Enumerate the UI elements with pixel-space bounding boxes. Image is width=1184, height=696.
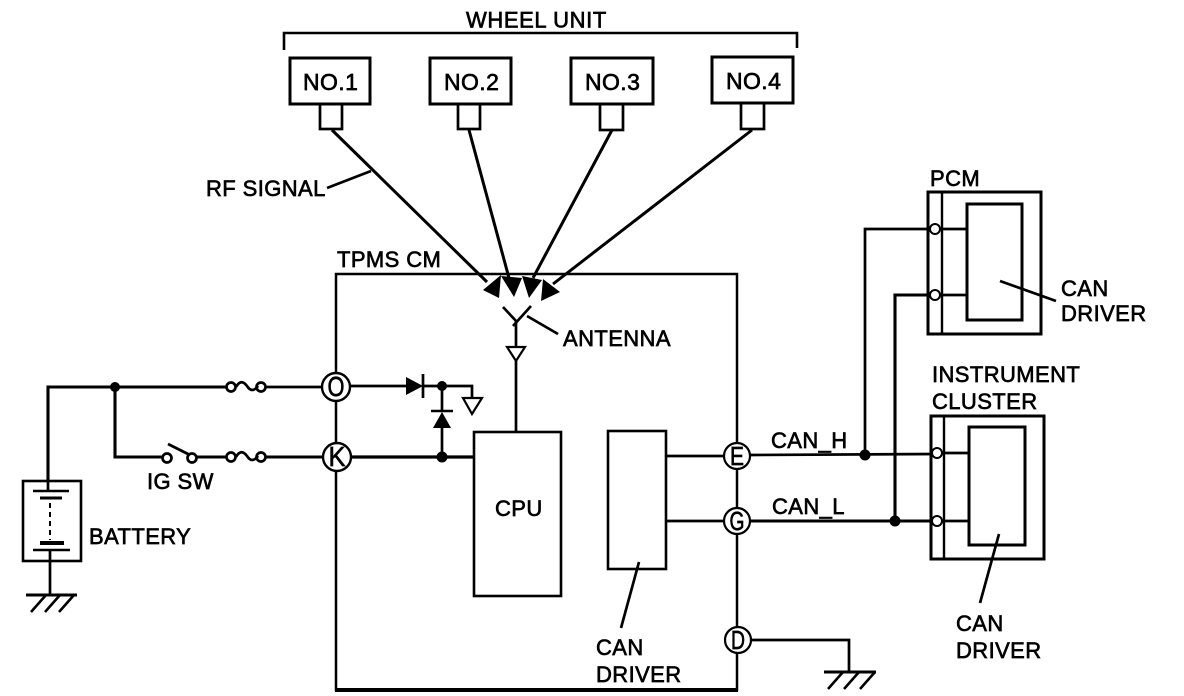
svg-text:NO.1: NO.1 <box>303 69 358 95</box>
TPMS CM bottom edge thick <box>335 688 738 692</box>
CAN driver box (TPMS) <box>608 431 666 569</box>
cluster pin 2 <box>932 516 942 526</box>
svg-text:NO.4: NO.4 <box>726 68 781 94</box>
instrument cluster outer box <box>931 416 1044 559</box>
svg-text:NO.2: NO.2 <box>444 69 499 95</box>
wire CAN_H <box>750 454 937 455</box>
antenna symbol <box>503 306 531 432</box>
svg-text:TPMS CM: TPMS CM <box>337 247 441 272</box>
cluster pin 2 wire <box>942 520 969 523</box>
wire CAN driver to G <box>666 520 725 523</box>
svg-text:ANTENNA: ANTENNA <box>563 326 671 351</box>
battery box <box>23 481 81 561</box>
leader line CAN driver (TPMS) <box>621 562 639 628</box>
battery riser wire <box>48 387 115 481</box>
svg-text:INSTRUMENT: INSTRUMENT <box>932 362 1080 387</box>
leader line CAN driver (PCM) <box>1000 281 1056 301</box>
fuse F1 <box>227 382 266 391</box>
PCM outer box <box>928 192 1041 334</box>
connector pin O <box>322 371 350 402</box>
PCM pin 1 wire <box>940 228 967 231</box>
wire CAN driver to E <box>666 455 725 458</box>
rf wave line from NO.3 <box>533 130 612 278</box>
svg-text:NO.3: NO.3 <box>585 69 640 95</box>
CPU box <box>474 432 561 596</box>
wire fuse2 to K <box>266 455 323 458</box>
junction dot on K line <box>437 452 448 463</box>
wire junction down to zener <box>441 386 444 411</box>
connector pin G <box>724 506 750 536</box>
junction dot CAN_H <box>860 450 871 461</box>
svg-text:CAN_H: CAN_H <box>771 428 848 453</box>
wire CAN_L <box>750 519 937 522</box>
wire switch to fuse 2 <box>197 455 227 458</box>
svg-text:G: G <box>730 506 745 536</box>
rf wave line from NO.2 <box>469 130 509 278</box>
wire D to ground <box>751 640 849 672</box>
PCM connector strip <box>941 192 943 334</box>
svg-text:O: O <box>328 371 345 402</box>
wire zener to K line <box>441 428 444 457</box>
svg-text:CAN: CAN <box>596 635 644 660</box>
connector pin D <box>725 625 751 655</box>
svg-text:CLUSTER: CLUSTER <box>932 389 1038 414</box>
svg-text:BATTERY: BATTERY <box>89 524 191 549</box>
svg-text:WHEEL UNIT: WHEEL UNIT <box>466 8 607 33</box>
svg-text:CAN_L: CAN_L <box>772 494 845 519</box>
diode D1 <box>406 374 423 398</box>
svg-text:K: K <box>329 441 346 472</box>
junction dot after diode <box>437 381 447 391</box>
leader line RF SIGNAL <box>327 171 371 188</box>
wire to fuse 1 <box>115 385 227 388</box>
leader line CAN driver (cluster) <box>980 534 999 603</box>
rf arrowhead 4 <box>541 279 560 301</box>
PCM pin 2 <box>930 290 940 300</box>
connector pin K <box>323 441 351 472</box>
wheel unit NO.1 box <box>290 58 370 129</box>
cluster pin 1 wire <box>942 452 969 455</box>
instrument cluster connector strip <box>943 416 945 559</box>
rf arrowhead 3 <box>522 276 542 298</box>
svg-text:RF SIGNAL: RF SIGNAL <box>206 176 326 201</box>
wire CAN_H up to PCM <box>865 229 929 455</box>
wire battery to ground <box>49 561 52 595</box>
wire junction to open arrow <box>442 386 472 398</box>
instrument cluster CAN driver box <box>969 427 1025 545</box>
svg-text:D: D <box>731 625 745 655</box>
wire K to CPU <box>351 455 474 458</box>
wire CAN_L up to PCM <box>895 295 929 521</box>
svg-text:DRIVER: DRIVER <box>1061 301 1147 326</box>
bracket over wheel units <box>284 33 797 50</box>
PCM pin 1 <box>930 224 940 234</box>
rf wave line from NO.4 <box>553 130 752 284</box>
rf arrowhead 1 <box>483 275 501 298</box>
ground (battery) <box>26 595 77 612</box>
junction dot battery feed <box>110 382 120 392</box>
TPMS CM box <box>336 274 737 690</box>
open triangle (supply marker) <box>463 398 482 414</box>
svg-text:PCM: PCM <box>930 166 980 191</box>
switch IG SW <box>163 444 197 463</box>
svg-text:CAN: CAN <box>956 611 1004 636</box>
svg-text:DRIVER: DRIVER <box>956 638 1042 663</box>
PCM CAN driver box <box>967 204 1022 320</box>
svg-text:DRIVER: DRIVER <box>596 662 682 687</box>
wire junction down to IG SW <box>115 387 162 457</box>
wheel unit NO.4 box <box>712 57 793 129</box>
junction dot CAN_L <box>890 516 901 527</box>
connector pin E <box>724 441 750 471</box>
wheel unit NO.2 box <box>430 58 511 129</box>
svg-text:CPU: CPU <box>495 496 543 521</box>
cluster pin 1 <box>932 448 942 458</box>
fuse F2 <box>227 452 266 461</box>
wheel unit NO.3 box <box>571 58 653 130</box>
battery plates <box>33 481 70 561</box>
svg-text:IG SW: IG SW <box>147 469 214 494</box>
svg-text:E: E <box>730 441 744 471</box>
wire fuse1 to O <box>266 386 322 389</box>
zener diode Z1 <box>431 411 453 428</box>
PCM pin 2 wire <box>940 294 967 297</box>
svg-text:CAN: CAN <box>1061 276 1109 301</box>
rf wave line from NO.1 <box>332 130 487 282</box>
wire O to diode <box>350 385 406 388</box>
wire diode to junction <box>423 385 442 388</box>
ground (D pin) <box>824 672 876 689</box>
label ANTENNA <box>527 316 558 334</box>
rf arrowhead 2 <box>501 276 522 297</box>
